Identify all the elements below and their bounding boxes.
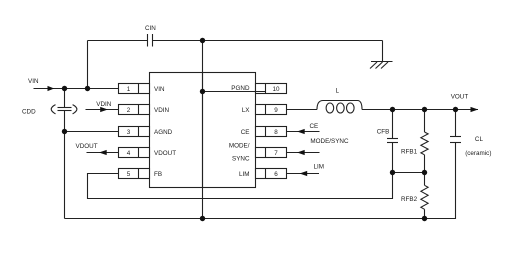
svg-text:RFB2: RFB2	[401, 196, 418, 203]
svg-text:CE: CE	[310, 123, 319, 130]
svg-text:L: L	[336, 88, 340, 95]
svg-text:5: 5	[127, 171, 131, 178]
svg-text:4: 4	[127, 150, 131, 157]
svg-text:LX: LX	[242, 107, 251, 114]
svg-text:LIM: LIM	[239, 171, 250, 178]
svg-text:7: 7	[274, 150, 278, 157]
svg-text:VDIN: VDIN	[96, 101, 111, 108]
svg-text:VOUT: VOUT	[451, 94, 469, 101]
svg-text:1: 1	[127, 86, 131, 93]
svg-text:MODE/: MODE/	[229, 143, 250, 150]
svg-text:10: 10	[272, 86, 280, 93]
svg-text:CE: CE	[241, 129, 250, 136]
svg-text:3: 3	[127, 129, 131, 136]
svg-text:RFB1: RFB1	[401, 149, 418, 156]
svg-text:CIN: CIN	[145, 25, 156, 32]
svg-text:VDOUT: VDOUT	[154, 150, 176, 157]
svg-text:CL: CL	[475, 136, 484, 143]
svg-text:VIN: VIN	[154, 86, 165, 93]
svg-text:FB: FB	[154, 171, 162, 178]
svg-text:8: 8	[274, 129, 278, 136]
svg-text:2: 2	[127, 107, 131, 114]
svg-text:VIN: VIN	[28, 78, 39, 85]
svg-text:VDIN: VDIN	[154, 107, 169, 114]
svg-text:9: 9	[274, 107, 278, 114]
svg-text:AGND: AGND	[154, 129, 173, 136]
svg-text:VDOUT: VDOUT	[76, 143, 98, 150]
svg-text:6: 6	[274, 171, 278, 178]
svg-text:CDD: CDD	[22, 109, 36, 116]
svg-text:SYNC: SYNC	[232, 156, 250, 163]
svg-text:PGND: PGND	[231, 85, 250, 92]
svg-text:LIM: LIM	[314, 163, 325, 170]
svg-text:(ceramic): (ceramic)	[465, 150, 491, 157]
svg-text:CFB: CFB	[377, 128, 390, 135]
svg-text:MODE/SYNC: MODE/SYNC	[310, 138, 349, 145]
